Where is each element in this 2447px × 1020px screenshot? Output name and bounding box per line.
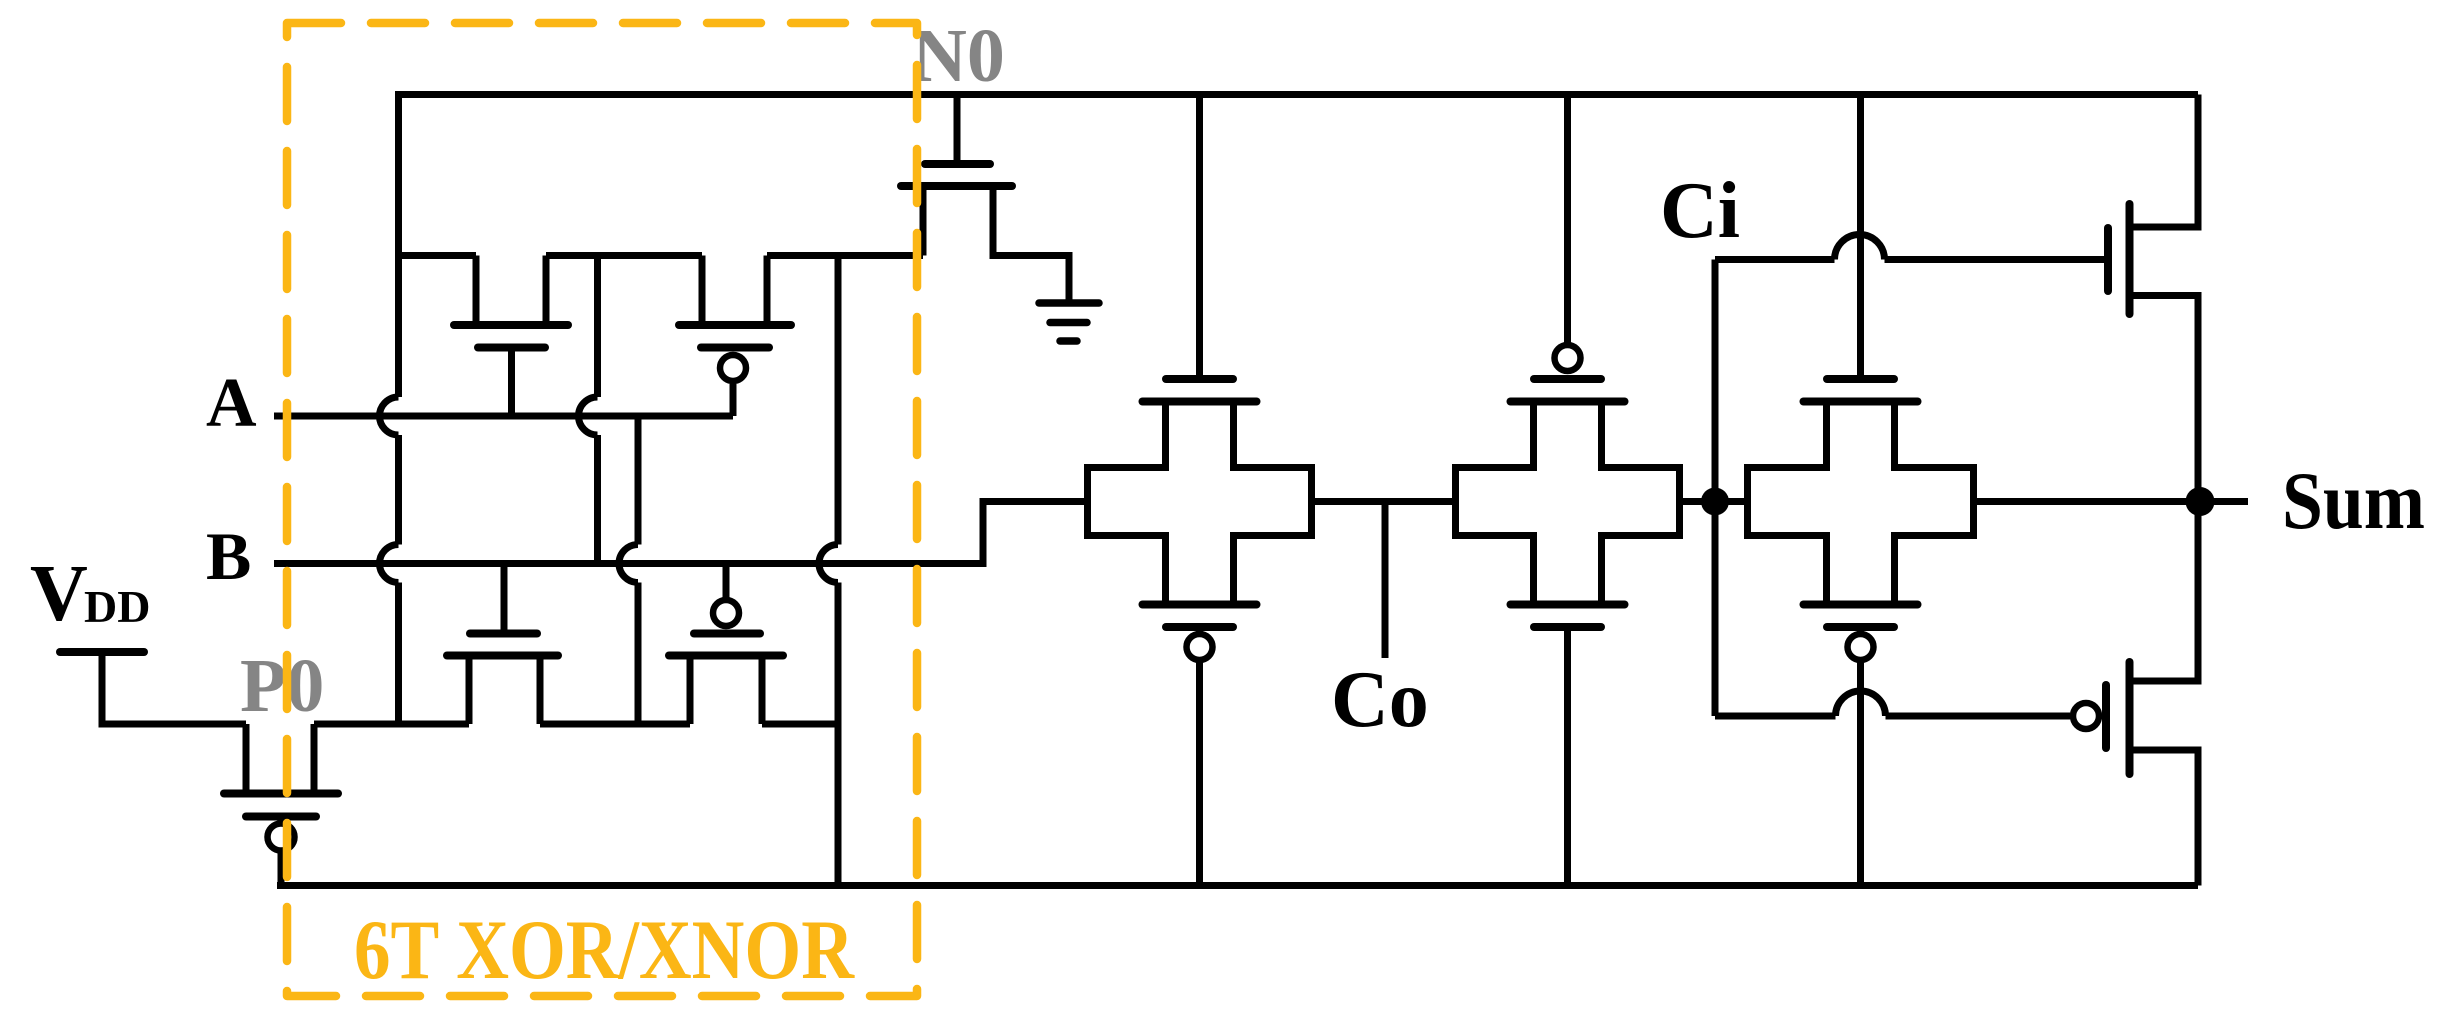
wire cross vertical x597: [594, 256, 601, 564]
hop of x597 over wire A: [579, 397, 598, 435]
transistor M3 NMOS gate B lower left: [447, 564, 558, 725]
transistor M8 PMOS right bottom: [2073, 662, 2198, 886]
svg-text:B: B: [206, 518, 251, 594]
transmission gate TG1: [1088, 91, 1312, 886]
wire B into TG1: [274, 502, 1088, 564]
svg-text:Co: Co: [1331, 656, 1429, 744]
transistor M7 NMOS right top: [2108, 204, 2198, 502]
wire Sum down to M8: [2130, 502, 2199, 682]
transistor P0 PMOS: [224, 724, 338, 886]
wire Ci top to M7 gate: [1715, 256, 2108, 263]
transmission gate TG2: [1456, 91, 1680, 886]
wire Co tap: [1382, 502, 1389, 659]
svg-text:V: V: [30, 550, 88, 638]
hop of x838 over wire B: [819, 545, 838, 583]
svg-text:A: A: [206, 365, 257, 442]
svg-text:Sum: Sum: [2282, 455, 2425, 546]
VDD supply bar: [60, 648, 144, 656]
wire cross vertical x638 A to lower row: [635, 416, 642, 724]
wire A: [274, 413, 733, 420]
wire left bus from rail to P0 drain row: [395, 91, 402, 724]
wire TG1 out to TG2 with Co tap: [1312, 498, 1456, 505]
transistor N0 NMOS pulldown: [901, 95, 1069, 303]
wire top rail node N0: [399, 91, 2199, 98]
wire TG2 out to node Ci junction: [1680, 498, 1748, 505]
wire rail right corner down to M7: [2130, 95, 2199, 228]
wire TG3 out to Sum: [1974, 498, 2199, 505]
svg-text:P0: P0: [240, 644, 324, 728]
wire P0 drain row to lower pass transistors: [314, 721, 838, 728]
svg-text:DD: DD: [84, 581, 150, 632]
hop of left bus over wire A: [380, 397, 399, 435]
svg-text:6T XOR/XNOR: 6T XOR/XNOR: [354, 903, 855, 997]
label VDD: [30, 550, 150, 638]
transistor M2 PMOS gate A upper right: [679, 256, 791, 417]
wire Ci vertical: [1712, 260, 1719, 717]
hop of Ci bottom wire over TG3 lead: [1836, 691, 1886, 716]
wire Ci bottom to M8 gate: [1715, 713, 2070, 720]
wire cross vertical x838 xor row to rail P0: [835, 256, 842, 886]
transistor M1 NMOS gate A upper left: [454, 256, 568, 417]
junction dot Sum: [2186, 487, 2215, 516]
dashed box 6T XOR/XNOR: [287, 23, 917, 996]
junction dot TG2 out: [1701, 488, 1729, 516]
wire VDD to P0 source: [102, 652, 246, 724]
wire bottom rail node P0: [277, 882, 2198, 889]
hop of x638 over wire B: [619, 545, 638, 583]
svg-text:Ci: Ci: [1660, 167, 1740, 255]
wire xor row upper: [399, 252, 924, 259]
ground symbol: [1039, 303, 1099, 341]
transmission gate TG3: [1748, 91, 1974, 886]
hop of left bus over wire B: [380, 545, 399, 583]
transistor M4 PMOS gate B lower right: [669, 564, 783, 725]
hop of Ci wire over TG3 lead: [1835, 235, 1885, 260]
svg-text:N0: N0: [912, 14, 1005, 98]
wire Sum stub: [2198, 498, 2248, 505]
